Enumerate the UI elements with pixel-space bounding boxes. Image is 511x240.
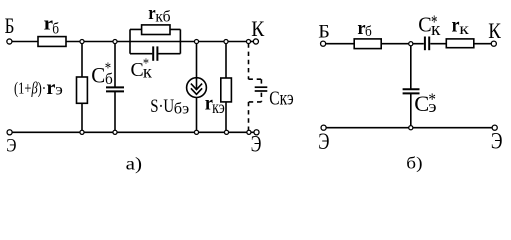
terminal K circuit b <box>491 41 496 46</box>
terminal B circuit b <box>321 41 326 46</box>
terminal E left circuit a <box>7 130 12 135</box>
terminal E right circuit a <box>254 130 259 135</box>
terminal B circuit a <box>7 39 12 44</box>
wire r_b to junction <box>381 43 424 45</box>
capacitor C*_k series plates <box>424 37 426 51</box>
svg-text:К: К <box>251 16 264 41</box>
capacitor C*_e vertical branch <box>410 44 412 89</box>
svg-text:б): б) <box>406 153 422 172</box>
node junction circuit b bottom <box>409 126 413 130</box>
wire stub to E terminal right <box>249 131 254 133</box>
node junction circuit b top <box>409 42 413 46</box>
resistor (1+beta)r_e vertical branch <box>81 42 83 78</box>
terminal E left circuit b <box>321 125 326 130</box>
resistor r_kb <box>142 25 170 35</box>
node junction top of r_ke branch <box>224 39 228 43</box>
svg-text:(1+β)·: (1+β)· <box>14 78 46 97</box>
svg-text:Э: Э <box>318 129 329 154</box>
node junction bottom of r_ke branch <box>224 130 228 134</box>
svg-text:б: б <box>52 21 59 38</box>
node junction bottom of (1+beta)r_e branch <box>80 130 84 134</box>
terminal K circuit a <box>253 39 258 44</box>
svg-text:S·U: S·U <box>150 96 174 117</box>
svg-text:Б: Б <box>5 13 15 38</box>
capacitor C*_b vertical branch <box>114 42 116 88</box>
svg-text:кб: кб <box>155 8 170 25</box>
svg-text:r: r <box>46 75 55 99</box>
svg-text:к: к <box>143 62 152 82</box>
resistor r_ke vertical <box>225 42 227 79</box>
svg-text:Э: Э <box>491 129 503 154</box>
wire top rail circuit a <box>12 41 38 43</box>
capacitor C*_k plates (circuit a) <box>152 46 154 60</box>
node junction bottom of C_ke dashed branch <box>247 130 251 134</box>
resistor r_b (circuit b) <box>354 39 381 49</box>
wire cap to r_k <box>430 43 446 45</box>
svg-text:бэ: бэ <box>174 101 190 118</box>
svg-text:С: С <box>418 12 431 36</box>
svg-text:к: к <box>459 21 469 38</box>
svg-text:Б: Б <box>318 22 330 43</box>
svg-text:С: С <box>131 60 144 81</box>
node junction top of C_ke dashed branch <box>246 39 250 43</box>
svg-text:б: б <box>365 24 372 40</box>
wire top rail circuit b <box>326 43 354 45</box>
resistor R r_b (circuit a) <box>38 37 66 47</box>
svg-text:к: к <box>431 19 441 40</box>
svg-text:Скэ: Скэ <box>269 88 293 110</box>
svg-text:э: э <box>55 82 63 99</box>
wire bottom rail circuit b <box>326 127 492 129</box>
terminal E right circuit b <box>492 125 497 130</box>
svg-text:э: э <box>428 97 436 116</box>
resistor r_k <box>446 39 474 48</box>
wire after r_b to K junction <box>66 41 247 43</box>
svg-text:Э: Э <box>6 136 16 157</box>
parallel RC loop wires r_kb / C*_k <box>129 29 131 53</box>
svg-text:С: С <box>91 62 105 87</box>
wire bottom rail circuit a <box>12 131 247 133</box>
svg-text:С: С <box>414 91 429 116</box>
node junction top of current source branch <box>194 39 198 43</box>
node junction bottom of C*_b branch <box>113 130 117 134</box>
svg-text:Э: Э <box>251 132 262 157</box>
current source S·U_be <box>196 42 198 78</box>
svg-text:б: б <box>105 71 113 88</box>
wire r_k to K terminal <box>474 43 491 45</box>
svg-text:К: К <box>488 18 501 43</box>
node junction top of (1+beta)r_e branch <box>80 39 84 43</box>
node junction bottom of current source branch <box>194 130 198 134</box>
svg-text:кэ: кэ <box>212 97 225 117</box>
wire stub to K terminal <box>249 41 254 43</box>
svg-text:а): а) <box>126 154 143 174</box>
capacitor C_ke dashed branch <box>249 43 262 130</box>
node junction top of C*_b branch <box>113 39 117 43</box>
